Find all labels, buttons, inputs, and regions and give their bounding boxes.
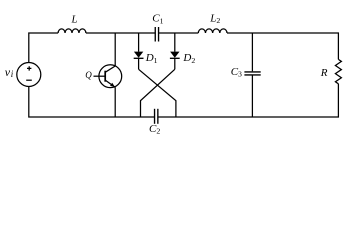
capacitor C1 xyxy=(155,27,158,42)
svg-text:Q: Q xyxy=(85,70,92,80)
wire top rail L to C1 xyxy=(86,32,155,34)
wire transistor collector branch from top rail xyxy=(114,33,116,66)
transistor Q1 xyxy=(94,65,122,88)
wire C3 branch from top rail xyxy=(251,33,253,71)
resistor R xyxy=(335,59,341,83)
wire cross from D1 to right foot of C2 xyxy=(139,69,176,117)
wire D2 cathode stub xyxy=(174,58,176,69)
wire transistor emitter to bottom rail xyxy=(114,87,116,117)
wire D1 cathode stub xyxy=(138,58,140,69)
inductor L xyxy=(58,29,86,33)
wire C3 to bottom rail xyxy=(251,76,253,118)
svg-text:L: L xyxy=(71,14,78,26)
diode D2 xyxy=(170,52,180,59)
inductor L2 xyxy=(198,29,227,33)
capacitor C2 xyxy=(155,109,158,124)
svg-text:R: R xyxy=(320,67,328,79)
diode D1 xyxy=(134,52,144,59)
wire top rail L2 to top-right corner, down to R xyxy=(227,33,338,59)
wire D2 anode from top rail xyxy=(174,33,176,52)
wire top-left corner and top rail to L xyxy=(29,33,58,63)
capacitor C3 xyxy=(244,72,260,75)
wire top rail C1 to L2 xyxy=(159,32,199,34)
wire bottom rail left segment, bottom-left corner up to source xyxy=(29,87,155,118)
wire D1 anode from top rail xyxy=(138,33,140,52)
voltage source vi xyxy=(17,63,41,87)
wire cross from D2 to left foot of C2 xyxy=(141,69,175,117)
wire R to bottom rail, bottom rail right segment to C2 xyxy=(158,84,339,117)
